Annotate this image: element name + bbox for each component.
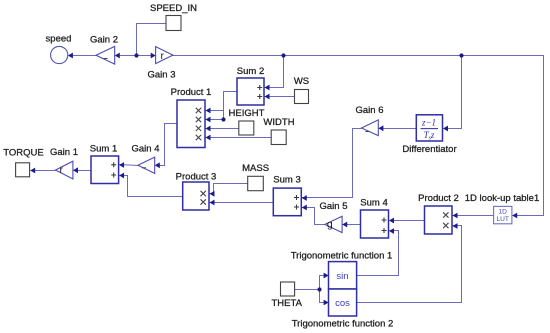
wire cos output to Product 2 input 2 (357, 226, 462, 303)
arrowhead into 1D look-up table (512, 213, 517, 219)
gain G5 (Gain 5) value g (320, 201, 348, 233)
gain G6 (Gain 6) (356, 105, 384, 136)
arrowhead into Product 1 input 4 (206, 135, 211, 141)
svg-text:g: g (327, 219, 333, 231)
arrowhead into Sum 2 input 1 (265, 85, 270, 91)
wire Product 2 output to Sum 4 input 1 (390, 220, 425, 222)
arrowhead into Sum 3 input 2 (302, 205, 307, 211)
trig block T1 (sin) (291, 251, 393, 290)
wire junction to cos input (320, 290, 329, 303)
inport WIDTH (263, 117, 294, 145)
wire Gain 3 output main line to 1D look-up table input (173, 56, 544, 216)
scope speed (46, 34, 72, 64)
arrowhead into Sum 1 input 2 (119, 173, 124, 179)
svg-text:Sum 3: Sum 3 (273, 175, 300, 186)
arrowhead into Sum 2 input 2 (265, 94, 270, 100)
arrowhead into Gain 3 (151, 53, 156, 59)
svg-text:1D: 1D (498, 209, 507, 216)
arrowhead into cos (324, 300, 329, 306)
svg-text:r: r (161, 50, 165, 62)
inport HEIGHT (229, 108, 265, 135)
arrowhead into Product 1 input 1 (206, 108, 211, 114)
junction dot at Differentiator branch (459, 53, 463, 57)
lookup table L1 (1D look-up table1) (465, 193, 539, 224)
svg-text:Trigonometric function 1: Trigonometric function 1 (291, 251, 393, 262)
arrowhead into Sum 1 input 1 (119, 162, 124, 168)
wire WS output to Sum 2 input 2 (265, 96, 295, 98)
svg-text:Sum 2: Sum 2 (237, 66, 264, 77)
arrowhead into Gain 6 (378, 125, 383, 131)
sum S4 (Sum 4) (360, 198, 388, 239)
product P1 (Product 1) (171, 87, 212, 148)
wire junction to sin input (320, 276, 329, 290)
inport WS (294, 76, 309, 104)
wire THETA output to junction (295, 289, 320, 291)
svg-text:SPEED_IN: SPEED_IN (150, 3, 197, 14)
arrowhead into Differentiator (443, 126, 448, 132)
svg-text:1D look-up table1: 1D look-up table1 (465, 193, 539, 204)
svg-text:Gain 6: Gain 6 (356, 105, 384, 116)
wire SPEED_IN output down to junction (137, 24, 167, 56)
wire Sum 1 output to Gain 1 input (74, 170, 92, 172)
arrowhead into Sum 4 input 2 (389, 228, 394, 234)
arrowhead into Product 1 input 3 (206, 126, 211, 132)
wire Sum 3 output to Product 3 input 2 (210, 202, 274, 204)
arrowhead into Gain 5 (342, 222, 347, 228)
wire junction to Gain 3 input (137, 55, 156, 57)
arrowhead into Product 2 input 2 (453, 223, 458, 229)
svg-text:LUT: LUT (496, 216, 508, 223)
svg-text:Product 3: Product 3 (176, 172, 217, 183)
arrowhead into Sum 3 input 1 (302, 195, 307, 201)
gain G3 (Gain 3) value r (148, 47, 176, 81)
sum S1 (Sum 1) (90, 144, 119, 184)
gain G4 (Gain 4) (132, 144, 160, 174)
svg-text:THETA: THETA (271, 298, 302, 309)
svg-text:MASS: MASS (242, 163, 269, 174)
wire Gain 2 output to speed scope (69, 55, 97, 57)
wire Gain 5 output to Sum 3 input 2 (302, 208, 325, 225)
outport TORQUE (3, 148, 43, 177)
arrowhead into Gain 1 (73, 167, 78, 173)
svg-text:speed: speed (46, 34, 72, 45)
wire main line branch to Differentiator input (444, 56, 462, 129)
wire Differentiator output to Gain 6 input (379, 128, 417, 130)
arrowhead into Product 1 input 2 (206, 117, 211, 123)
arrowhead into speed scope (68, 53, 73, 59)
svg-text:Trigonometric function 2: Trigonometric function 2 (292, 319, 394, 330)
svg-text:WIDTH: WIDTH (263, 117, 294, 128)
arrowhead into Product 3 input 1 (210, 191, 215, 197)
wire Product 3 output to Sum 1 input 2 (120, 176, 183, 197)
svg-text:WS: WS (294, 76, 309, 87)
wire Sum 2 output down to Product 1 input 2 (206, 92, 238, 120)
svg-text:Gain 2: Gain 2 (90, 34, 118, 45)
sum S2 (Sum 2) (237, 66, 264, 105)
discrete transfer Fcn U1 (Differentiator) (402, 115, 456, 155)
sum S3 (Sum 3) (273, 175, 301, 216)
svg-text:sin: sin (336, 271, 348, 282)
wire Gain 6 output to Sum 3 input 1 (302, 129, 362, 198)
arrowhead into Sum 4 input 1 (389, 218, 394, 224)
svg-text:z−1: z−1 (421, 118, 436, 128)
wire branch to Product 1 input 1 (206, 110, 224, 112)
arrowhead into Gain 4 (155, 162, 160, 168)
wire Product 1 output to Gain 4 input (156, 124, 178, 166)
junction dot at Sum 2 branch (281, 53, 285, 57)
trig block T2 (cos) (292, 289, 394, 330)
svg-text:cos: cos (335, 298, 350, 309)
svg-text:Product 1: Product 1 (171, 87, 212, 98)
product P2 (Product 2) (418, 193, 459, 234)
product P3 (Product 3) (176, 172, 217, 211)
wire WIDTH output to Product 1 input 4 (206, 137, 272, 139)
arrowhead into Gain 2 (115, 53, 120, 59)
gain G2 (Gain 2) (90, 34, 118, 64)
arrowhead into Product 2 input 1 (453, 213, 458, 219)
inport THETA (271, 282, 302, 309)
junction dot at THETA branch (317, 287, 321, 291)
svg-text:HEIGHT: HEIGHT (229, 108, 265, 119)
gain G1 (Gain 1) value r (50, 147, 78, 179)
svg-text:Gain 3: Gain 3 (148, 70, 176, 81)
junction dot at SPEED_IN branch (134, 53, 138, 57)
wire MASS output to Product 3 input 1 (210, 184, 248, 194)
wire HEIGHT output to Product 1 input 3 (206, 128, 239, 130)
wire Gain 1 output to TORQUE input (31, 170, 56, 172)
wire main line branch to Sum 2 input 1 (265, 56, 284, 88)
svg-text:Gain 1: Gain 1 (50, 147, 78, 158)
svg-text:Gain 4: Gain 4 (132, 144, 160, 155)
svg-text:TORQUE: TORQUE (3, 148, 43, 159)
svg-text:Sum 1: Sum 1 (90, 144, 117, 155)
inport MASS (242, 163, 269, 191)
wire 1D look-up table output to Product 2 input 1 (453, 215, 494, 217)
arrowhead into TORQUE (30, 168, 35, 174)
inport SPEED_IN (150, 3, 197, 31)
arrowhead into sin (324, 273, 329, 279)
svg-text:Product 2: Product 2 (418, 193, 459, 204)
svg-text:Differentiator: Differentiator (402, 144, 456, 155)
wire sin output to Sum 4 input 2 (357, 231, 399, 276)
wire Gain 4 output to Sum 1 input 1 (120, 165, 138, 166)
arrowhead into Product 3 input 2 (210, 200, 215, 206)
svg-text:Gain 5: Gain 5 (320, 201, 348, 212)
wire junction to Gain 2 input (116, 55, 137, 57)
wire Sum 4 output to Gain 5 input (343, 224, 361, 226)
svg-text:r: r (60, 164, 64, 176)
svg-text:Sum 4: Sum 4 (360, 198, 387, 209)
junction dot at Product 1 input branch (221, 117, 225, 121)
